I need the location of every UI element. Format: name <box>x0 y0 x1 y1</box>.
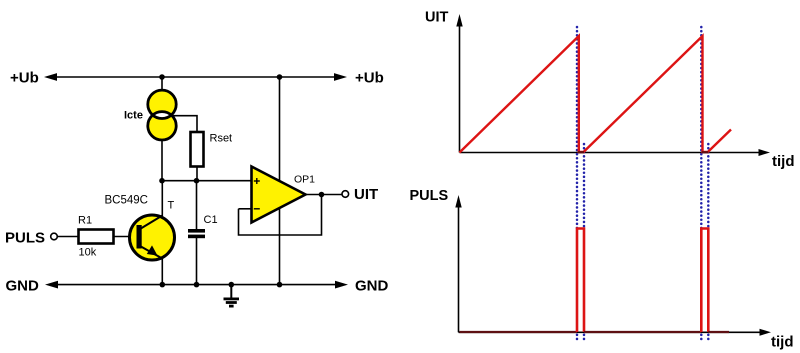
dotted timing line A2 <box>700 27 703 229</box>
sawtooth baseline overlap 2 <box>702 151 709 153</box>
ground symbol <box>224 285 240 307</box>
wire: node row to transistor collector <box>161 181 163 216</box>
junction GND at C1 <box>194 282 200 288</box>
svg-text:GND: GND <box>355 277 389 294</box>
wire: op-amp supply vertical (behind op-amp) <box>279 77 281 285</box>
wire: op-amp minus input <box>239 208 252 210</box>
dotted timing line B2 <box>707 144 710 229</box>
current source Icte (two overlapped circles) <box>148 90 176 140</box>
resistor R1 <box>79 230 114 244</box>
sawtooth baseline overlap 1 <box>578 151 584 153</box>
capacitor C1 <box>188 229 205 238</box>
svg-text:C1: C1 <box>204 214 218 226</box>
wire: current source to node row <box>161 140 163 181</box>
UIT chart y-axis <box>459 24 461 153</box>
svg-text:PULS: PULS <box>5 230 45 247</box>
pulse 1 <box>577 229 584 333</box>
op-amp OP1 <box>252 167 306 223</box>
junction GND at emitter <box>160 282 166 288</box>
sawtooth waveform <box>460 36 732 153</box>
svg-text:BC549C: BC549C <box>105 195 148 207</box>
svg-text:T: T <box>168 200 175 212</box>
PULS chart x-axis <box>459 331 762 333</box>
GND rail right arrow <box>335 281 348 289</box>
junction on +Ub rail at current source <box>159 74 165 80</box>
junction output/feedback <box>319 192 325 198</box>
svg-text:GND: GND <box>6 277 40 294</box>
junction node row left <box>159 178 165 184</box>
pulse 2 <box>701 229 708 333</box>
+Ub rail left arrow <box>44 73 57 81</box>
feedback wire <box>239 195 322 236</box>
capacitor C1 wire top <box>196 181 198 229</box>
svg-text:R1: R1 <box>78 215 92 227</box>
svg-text:UIT: UIT <box>354 186 378 203</box>
GND rail wire <box>53 284 340 286</box>
dotted timing line B1 <box>583 144 586 229</box>
wire: R1 to transistor base <box>114 236 138 238</box>
svg-text:+Ub: +Ub <box>10 70 39 87</box>
capacitor C1 wire bottom <box>196 238 198 285</box>
+Ub rail right arrow <box>334 73 347 81</box>
svg-text:Rset: Rset <box>210 133 233 145</box>
wire: op-amp output <box>306 194 343 196</box>
svg-text:+Ub: +Ub <box>355 70 384 87</box>
pulse waveform baseline middle <box>584 331 701 333</box>
svg-text:tijd: tijd <box>772 153 795 170</box>
svg-text:10k: 10k <box>79 247 97 259</box>
dotted timing line A1 <box>576 27 579 229</box>
node row wire to op-amp + input <box>162 180 252 182</box>
UIT chart x-axis <box>460 152 761 154</box>
pulse waveform baseline left <box>460 331 578 333</box>
transistor T BC549C <box>130 215 175 260</box>
output terminal UIT <box>342 191 349 198</box>
wire: current source to Rset <box>170 116 197 132</box>
GND rail left arrow <box>45 281 58 289</box>
svg-text:UIT: UIT <box>425 9 449 25</box>
wire: PULS terminal to R1 <box>57 236 78 238</box>
wire: Rset to node row <box>196 167 198 181</box>
wire: +Ub rail to current source <box>161 77 163 92</box>
svg-text:PULS: PULS <box>410 188 449 204</box>
input terminal PULS <box>51 233 58 240</box>
+Ub rail wire <box>52 76 339 78</box>
PULS chart y-axis <box>458 206 460 332</box>
pulse waveform baseline right <box>708 331 729 333</box>
wire: emitter to GND rail <box>161 258 163 285</box>
junction GND at op-amp supply <box>277 282 283 288</box>
svg-text:OP1: OP1 <box>294 174 315 186</box>
resistor Rset <box>191 132 204 167</box>
svg-text:Icte: Icte <box>124 110 143 122</box>
junction node row at C1 <box>194 178 200 184</box>
junction GND at ground symbol <box>229 282 235 288</box>
junction on +Ub rail at op-amp supply <box>277 74 283 80</box>
svg-text:tijd: tijd <box>771 334 794 351</box>
